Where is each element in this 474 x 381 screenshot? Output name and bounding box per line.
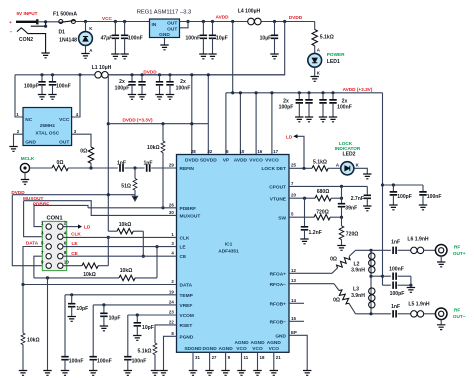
svg-text:100nF: 100nF: [56, 84, 71, 90]
svg-text:720Ω: 720Ω: [316, 210, 329, 216]
resistor 720R vertical: [341, 217, 343, 226]
svg-text:31: 31: [195, 355, 200, 360]
svg-text:28: 28: [191, 149, 196, 154]
svg-text:100nF: 100nF: [185, 36, 200, 42]
wire pin21 gnd: [273, 352, 275, 370]
junction REG1 out2: [186, 20, 189, 23]
svg-text:L5 1.9nH: L5 1.9nH: [408, 302, 430, 308]
junction 0R-xtal mclk row: [89, 166, 92, 169]
svg-text:10: 10: [64, 260, 69, 265]
svg-text:2x: 2x: [342, 98, 348, 104]
svg-text:LD: LD: [286, 135, 293, 140]
svg-text:24: 24: [169, 300, 174, 305]
svg-text:0Ω: 0Ω: [333, 298, 340, 304]
wire CPOUT row: [289, 185, 367, 187]
junction 10pF vcom: [136, 313, 139, 316]
junction D1: [84, 20, 87, 23]
svg-text:LE: LE: [72, 241, 78, 246]
svg-text:REG1 ASM1117 –3.3: REG1 ASM1117 –3.3: [137, 10, 192, 16]
ground 100nF 2x a: [155, 95, 163, 100]
svg-text:OUT: OUT: [59, 140, 69, 146]
inductor L5 1.9nH: [411, 311, 424, 317]
svg-text:5.1kΩ: 5.1kΩ: [313, 159, 327, 165]
svg-text:DATA: DATA: [26, 241, 39, 246]
resistor 680R: [315, 196, 331, 201]
wire plus lead to fuse: [37, 21, 58, 23]
junction 2x100pF a: [130, 73, 133, 76]
ground pin7 row: [43, 371, 51, 376]
wire 0R to mclk row: [90, 163, 92, 168]
resistor 51R: [134, 168, 136, 179]
svg-text:D1: D1: [58, 30, 65, 36]
svg-text:PDBRF: PDBRF: [180, 206, 197, 212]
ground 10pF temp: [68, 317, 76, 322]
svg-text:29: 29: [169, 163, 174, 168]
junction DVDD down feed: [283, 20, 286, 23]
wire MUXOUT row: [24, 201, 177, 216]
svg-text:DGND: DGND: [203, 346, 218, 352]
capacitor 10pF vref: [103, 305, 105, 313]
svg-text:10pF: 10pF: [76, 306, 88, 312]
svg-text:CLK: CLK: [71, 232, 81, 237]
svg-text:POWER: POWER: [327, 52, 345, 57]
ground xtal: [9, 147, 17, 152]
oscillator XTAL OSC 25MHz: [23, 108, 72, 146]
wire DVDD 3v3 rail: [108, 123, 208, 125]
inductor L1 10uH: [95, 72, 108, 79]
wire LED1 bottom: [314, 67, 316, 76]
junction AVDD feed: [231, 20, 234, 23]
junction bias 100nF: [381, 275, 384, 278]
wire con1 pin5 DATA: [23, 247, 177, 285]
ground bias caps: [407, 288, 415, 293]
svg-text:DVDD: DVDD: [185, 158, 199, 164]
ground LED2: [363, 174, 371, 179]
capacitor 2.7nF: [366, 186, 368, 195]
junction 2x100pF avdd b: [307, 91, 310, 94]
ground 10pF vref: [100, 326, 108, 331]
wire PDBRF row: [34, 205, 177, 207]
wire pin31 gnd: [192, 352, 194, 370]
svg-text:VVCO: VVCO: [249, 158, 263, 164]
wire DVDD left vertical: [107, 75, 109, 266]
capacitor 100nF avdd 2x b: [332, 93, 334, 100]
svg-text:47µF: 47µF: [100, 36, 114, 42]
ground 100pF xtal: [38, 95, 46, 100]
ground 100pF 2x a: [128, 95, 136, 100]
svg-text:OUT: OUT: [167, 20, 177, 26]
svg-text:100nF: 100nF: [128, 36, 143, 42]
wire VTUNE row: [289, 197, 315, 199]
wire RFOB- stub: [289, 320, 304, 322]
capacitor 10uF dvdd: [274, 22, 276, 36]
resistor 10k refin pullup: [162, 124, 164, 141]
wire RF- row: [356, 313, 391, 315]
resistor 5.1k led2: [312, 166, 328, 171]
junction L2 top: [369, 249, 372, 252]
junction pin28 rail: [190, 122, 193, 125]
fuse F1: [59, 20, 76, 24]
svg-text:VREF: VREF: [180, 303, 193, 309]
svg-text:LED2: LED2: [342, 152, 355, 158]
wire RFOA- row: [289, 283, 334, 285]
svg-text:2x: 2x: [180, 79, 186, 85]
wire VREF row: [93, 304, 176, 306]
wire bias caps right: [410, 276, 412, 285]
svg-text:100nF: 100nF: [97, 359, 112, 365]
ground 10uF-avdd: [208, 54, 216, 59]
svg-text:32: 32: [207, 149, 212, 154]
capacitor 100nF temp: [64, 295, 66, 357]
ground 100nF vcom: [124, 371, 132, 376]
connector RF OUT+: [435, 245, 447, 257]
svg-text:GND: GND: [159, 32, 170, 38]
regulator REG1 ASM1117-3.3: [150, 19, 180, 38]
wire DVDD con1 row: [12, 194, 134, 196]
wire LOCK DET row: [289, 167, 312, 169]
wire xtal VCC drop: [72, 75, 80, 117]
ground rfout-: [437, 325, 445, 330]
ground EP: [303, 371, 311, 376]
wire RSET row: [155, 325, 177, 343]
ground rfout+: [437, 262, 445, 267]
capacitor 100nF vcc: [124, 22, 126, 36]
connector RF OUT-: [435, 308, 447, 320]
svg-text:VCO: VCO: [252, 346, 263, 352]
svg-text:100nF: 100nF: [337, 105, 352, 111]
wire DVDD feed down to row2: [108, 22, 285, 75]
svg-text:10µF: 10µF: [260, 36, 272, 42]
svg-text:RF: RF: [454, 308, 460, 313]
wire con1 pin4 CLK row: [63, 236, 177, 238]
wire vert157: [156, 247, 158, 278]
svg-text:0Ω: 0Ω: [80, 149, 87, 155]
wire RFOA+ row: [289, 272, 332, 274]
junction bias tap: [369, 275, 372, 278]
wire rfout+ gnd: [440, 256, 442, 262]
capacitor 1nF rf+: [393, 247, 396, 254]
wire VCC rail: [76, 21, 150, 23]
wire con1 pin7: [34, 256, 46, 278]
junction 2x100nF avdd a: [321, 91, 324, 94]
wire avdd caps row: [383, 184, 424, 186]
ground pin18: [253, 371, 261, 376]
wire VCOM row: [128, 314, 177, 316]
capacitor 100pF avdd-r: [392, 185, 394, 192]
wire DVDD left vertical con1: [12, 195, 46, 266]
wire pin16 VVCO drop: [255, 93, 257, 155]
ground 100nF xtal: [48, 95, 56, 100]
wire con1 pin1: [34, 205, 46, 226]
svg-text:AVDD (+3.3V): AVDD (+3.3V): [343, 87, 373, 92]
capacitor 39nF: [341, 186, 343, 203]
capacitor 100nF xtal: [52, 75, 54, 82]
svg-text:LOCK DET: LOCK DET: [261, 166, 286, 172]
junction 100nF-avdd: [202, 20, 205, 23]
svg-text:L2: L2: [354, 261, 360, 267]
junction 10pF vref: [102, 303, 105, 306]
svg-text:LD: LD: [84, 225, 91, 230]
svg-text:1nF: 1nF: [143, 161, 152, 167]
capacitor 1nF refin a: [120, 164, 123, 171]
svg-text:680Ω: 680Ω: [317, 189, 330, 195]
wire pin10 AVDD drop: [239, 93, 241, 155]
svg-text:10µF: 10µF: [216, 36, 228, 42]
svg-text:IN: IN: [152, 22, 157, 28]
junction L3 bottom: [369, 312, 372, 315]
svg-text:TEMP: TEMP: [180, 293, 194, 299]
svg-text:CLK: CLK: [180, 235, 190, 241]
ground 1.2nF: [300, 239, 308, 244]
svg-text:VVCO: VVCO: [265, 158, 279, 164]
capacitor 100nF bias: [383, 275, 391, 277]
svg-text:12: 12: [291, 268, 296, 273]
svg-text:SW: SW: [278, 215, 286, 221]
junction DVDD rail corner: [107, 122, 110, 125]
svg-text:25: 25: [291, 163, 296, 168]
svg-text:100nF: 100nF: [176, 85, 191, 91]
svg-text:CON1: CON1: [46, 216, 63, 222]
svg-text:1.2nF: 1.2nF: [309, 230, 322, 236]
svg-text:CON2: CON2: [19, 37, 33, 43]
wire 1nF to L6: [398, 249, 411, 251]
connector CON1 header: [42, 221, 66, 270]
ground pin21: [270, 371, 278, 376]
wire pin6 VP drop: [225, 93, 227, 155]
ground CON2: [41, 53, 49, 58]
svg-text:GND: GND: [25, 140, 36, 146]
wire AVDD feed vertical: [232, 22, 234, 93]
capacitor 10pF temp: [71, 295, 73, 304]
resistor 5.1k LED1: [314, 22, 316, 30]
capacitor 10uF avdd: [212, 22, 214, 36]
svg-text:INDICATOR: INDICATOR: [335, 146, 361, 151]
svg-text:VTUNE: VTUNE: [270, 196, 287, 202]
svg-text:OUT: OUT: [167, 26, 177, 32]
ground pin31: [189, 371, 197, 376]
wire con1 pin8 CE row: [63, 255, 177, 257]
junction avdd cap row: [381, 183, 384, 186]
svg-text:GND: GND: [275, 333, 286, 339]
svg-text:AVDD: AVDD: [216, 15, 230, 20]
wire xtal out: [72, 134, 91, 147]
svg-text:VCC: VCC: [102, 16, 113, 21]
svg-text:10: 10: [239, 149, 244, 154]
wire pin28 DVDD drop: [191, 75, 193, 155]
svg-text:SDVDD: SDVDD: [200, 158, 217, 164]
svg-text:100nF: 100nF: [427, 194, 442, 200]
svg-text:100nF: 100nF: [69, 359, 84, 365]
junction avdd feed: [231, 91, 234, 94]
capacitor 100pF avdd 2x b: [308, 93, 310, 100]
svg-text:NC: NC: [25, 117, 32, 123]
ground pin9: [221, 371, 229, 376]
svg-text:11: 11: [244, 355, 249, 360]
svg-text:REFIN: REFIN: [180, 166, 195, 172]
junction sw node: [340, 216, 343, 219]
junction pin32 row2: [207, 73, 210, 76]
svg-text:10kΩ: 10kΩ: [119, 222, 132, 228]
wire 1nF to L5: [398, 313, 411, 315]
junction 10uF-dvdd: [273, 20, 276, 23]
pin con1 circles: [46, 224, 63, 268]
junction clk pulldown: [107, 236, 110, 239]
wire pin18 gnd: [257, 352, 259, 370]
wire EP gnd: [289, 335, 307, 370]
capacitor 1nF refin b: [147, 164, 150, 171]
svg-text:LE: LE: [180, 245, 187, 251]
wire 10k to vert157: [135, 277, 157, 279]
capacitor 100pF 2x a: [131, 75, 133, 82]
wire DVDD top: [261, 21, 315, 23]
wire con1 pin2 LD arrow: [63, 226, 78, 228]
svg-text:AGND: AGND: [219, 346, 234, 352]
svg-text:SDGND: SDGND: [184, 346, 202, 352]
wire L5 to rfout-: [424, 313, 436, 315]
svg-text:EP: EP: [291, 330, 297, 335]
svg-text:100pF: 100pF: [115, 85, 130, 91]
svg-text:L3: L3: [353, 287, 359, 293]
svg-text:100pF: 100pF: [279, 105, 294, 111]
ground pgnd: [159, 371, 167, 376]
resistor 5.1k rset: [153, 343, 157, 355]
wire rfout- gnd: [440, 320, 442, 325]
wire AVDD rail top: [180, 21, 248, 23]
wire RF+ row: [356, 249, 391, 251]
wire AVDD bias feed: [382, 93, 384, 285]
junction bias caps gnd: [409, 284, 412, 287]
wire pin27 gnd: [209, 352, 211, 370]
svg-text:1N4148: 1N4148: [59, 38, 77, 44]
wire refin to chip: [151, 167, 176, 169]
ground 2.7nF: [363, 206, 371, 211]
svg-text:DATA: DATA: [180, 283, 193, 289]
wire pin7 gnd drop: [47, 278, 49, 371]
wire con1 pin10 row: [63, 265, 82, 267]
wire 5.1k to led2: [328, 167, 341, 169]
capacitor 100nF 2x b: [169, 75, 171, 82]
svg-text:10pF: 10pF: [109, 316, 121, 322]
svg-text:10pF: 10pF: [142, 325, 154, 331]
junction plus-sleeve: [44, 20, 47, 23]
resistor 0R xtal out: [88, 147, 93, 163]
resistor 10k ce row: [119, 275, 135, 280]
wire DVDD row2 left: [15, 74, 95, 76]
capacitor 47uF: [114, 22, 116, 36]
inductor L6 1.9nH: [411, 247, 424, 253]
junction 2x100nF b: [168, 73, 171, 76]
svg-text:1nF: 1nF: [391, 304, 400, 310]
wire PGND row: [164, 336, 177, 370]
svg-text:CE: CE: [71, 251, 78, 256]
wire mclk row b: [125, 167, 145, 169]
capacitor 100nF avdd 2x a: [322, 93, 324, 100]
svg-text:CPOUT: CPOUT: [269, 185, 286, 191]
resistor 0R rfoa+ diagonal: [332, 268, 338, 273]
wire RFOB+ stub: [289, 302, 304, 304]
svg-text:1nF: 1nF: [117, 161, 126, 167]
wire con1 pin3: [24, 201, 46, 237]
svg-text:13: 13: [291, 278, 296, 283]
svg-text:VCC: VCC: [59, 117, 70, 123]
svg-text:XTAL OSC: XTAL OSC: [35, 130, 59, 136]
svg-text:OUT+: OUT+: [453, 251, 466, 256]
junction pin17: [270, 91, 273, 94]
junction xtal vcc: [78, 73, 81, 76]
ground 720R: [337, 246, 345, 251]
svg-text:5V INPUT: 5V INPUT: [16, 11, 37, 16]
junction 2x100pF b: [140, 73, 143, 76]
svg-text:VCO: VCO: [236, 346, 247, 352]
svg-text:LED1: LED1: [327, 59, 340, 65]
junction 100nF xtal: [51, 73, 54, 76]
svg-text:RSET: RSET: [180, 323, 193, 329]
ground 100pF 2x b: [138, 95, 146, 100]
junction 100nF-vcc: [123, 20, 126, 23]
ground 100nF-avdd: [199, 54, 207, 59]
wire mclk to 0R: [30, 167, 52, 169]
svg-text:30: 30: [169, 210, 174, 215]
wire REG1 out2 loop: [180, 22, 189, 28]
wire con1 pin6 LE row: [63, 246, 177, 248]
wire mclk row a: [68, 167, 118, 169]
ground 100nF avdd b: [329, 117, 337, 122]
ground MCLK: [24, 173, 26, 180]
wire pin17 VVCO drop: [271, 93, 273, 155]
svg-text:OUT−: OUT−: [453, 314, 466, 319]
ground 10k data: [19, 371, 27, 376]
wire REG1 gnd: [164, 38, 166, 46]
svg-text:F1 500mA: F1 500mA: [53, 11, 77, 17]
svg-text:IC1: IC1: [225, 241, 233, 247]
junction 100pF avdd-r: [392, 183, 395, 186]
wire pin10 to dvdd vert: [98, 265, 108, 267]
svg-text:AVDD: AVDD: [234, 158, 248, 164]
junction 2x100nF avdd b: [331, 91, 334, 94]
op-amp IC1 ADF4351 body: [177, 155, 290, 353]
wire led2 cathode: [354, 168, 367, 174]
svg-text:5.1kΩ: 5.1kΩ: [320, 35, 334, 41]
wire bias vertical: [370, 250, 372, 313]
capacitor 1nF rf-: [393, 310, 396, 317]
wire pin32 SDVDD drop: [207, 75, 209, 155]
ground 10uF-dvdd: [270, 54, 278, 59]
svg-text:18: 18: [260, 355, 265, 360]
junction vert157 LE: [155, 245, 158, 248]
connector MCLK coax: [20, 163, 29, 172]
svg-text:5.1kΩ: 5.1kΩ: [138, 349, 152, 355]
wire 720 to node: [330, 216, 342, 218]
wire pin7 pull row: [34, 277, 119, 279]
svg-text:10kΩ: 10kΩ: [147, 145, 160, 151]
junction data pulldown: [21, 283, 24, 286]
svg-text:23: 23: [169, 310, 174, 315]
junction 10pF temp: [70, 293, 73, 296]
svg-text:VCOM: VCOM: [180, 313, 194, 319]
svg-text:27: 27: [212, 355, 217, 360]
inductor L2 3.9nH: [369, 253, 375, 273]
svg-text:AGND: AGND: [267, 340, 282, 346]
wire 5V plus lead (thick): [16, 19, 37, 24]
junction dvdd-vert: [107, 193, 110, 196]
wire D1 bottom: [85, 45, 87, 53]
resistor 10k data pulldown: [22, 285, 24, 334]
ground 51R arrow: [132, 196, 137, 201]
svg-text:100pF: 100pF: [397, 194, 412, 200]
ground 100pF avdd a: [295, 117, 303, 122]
ground 100nF vref: [89, 371, 97, 376]
svg-text:10kΩ: 10kΩ: [27, 337, 40, 343]
